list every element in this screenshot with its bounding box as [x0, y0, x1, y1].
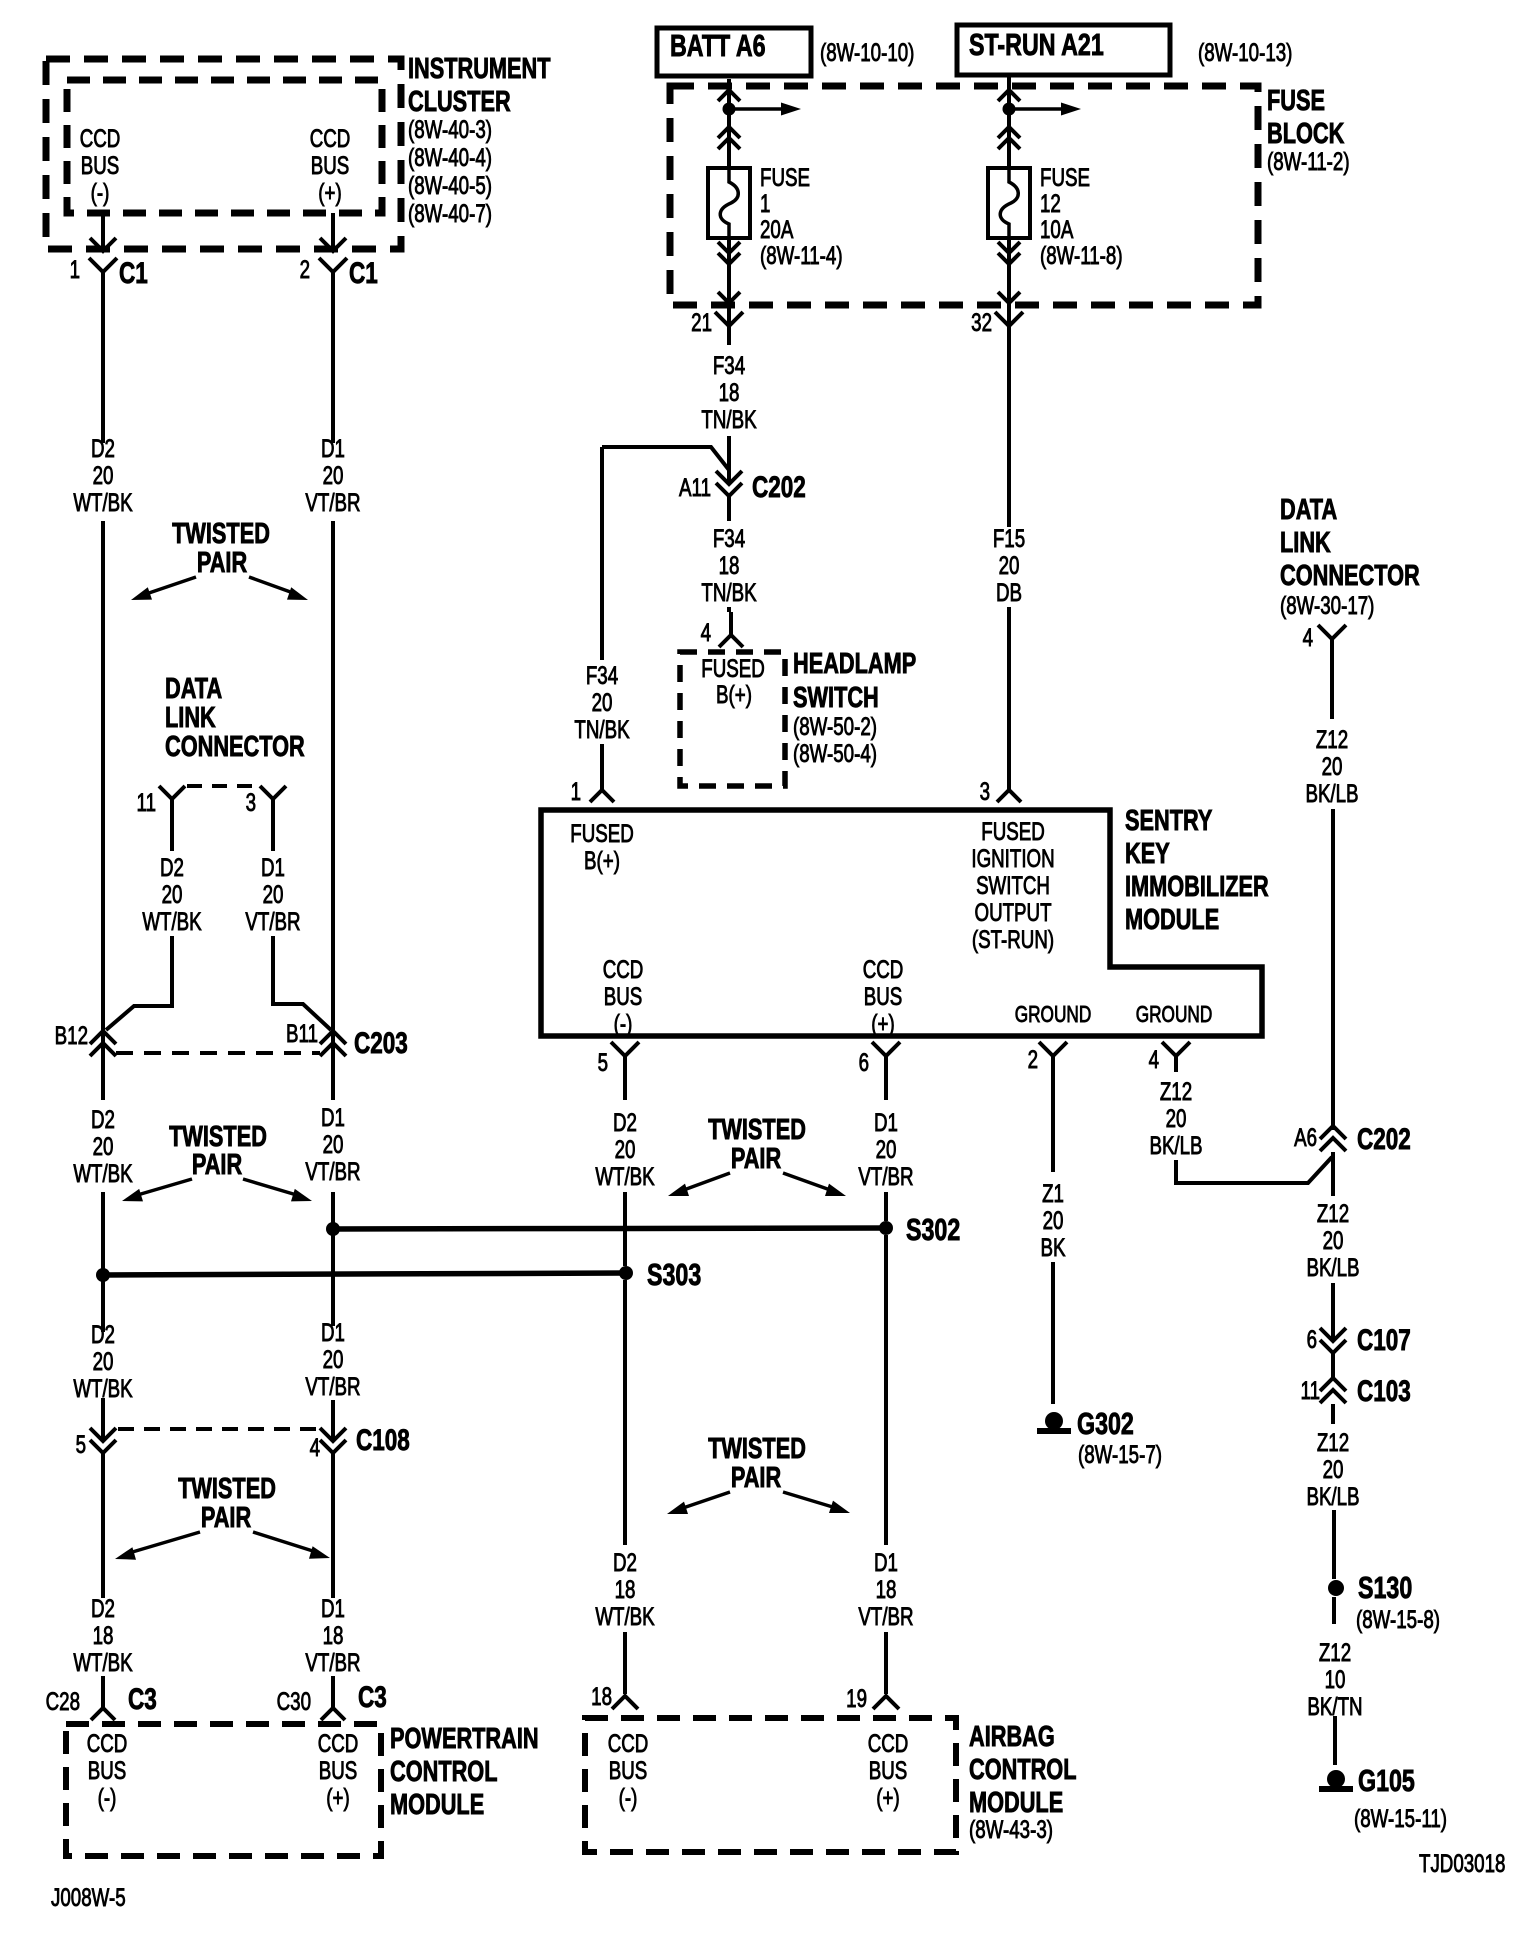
- dashed connector line between DLC pins: [187, 784, 259, 788]
- svg-text:S303: S303: [647, 1257, 701, 1292]
- wire BATT A6 into fuse block: [727, 79, 731, 168]
- wire D1 right column middle segment: [331, 521, 335, 1100]
- svg-text:(+): (+): [326, 1783, 349, 1811]
- connector C108 pin 4 chevrons: [320, 1428, 346, 1441]
- svg-text:TWISTED: TWISTED: [708, 1114, 806, 1146]
- svg-text:20: 20: [162, 880, 183, 908]
- svg-text:21: 21: [691, 308, 712, 336]
- svg-text:BUS: BUS: [609, 1756, 648, 1784]
- svg-text:CCD: CCD: [603, 955, 644, 983]
- svg-text:2: 2: [300, 255, 310, 283]
- SKIM pin 6 fork: [872, 1042, 900, 1056]
- sentry key immobilizer module box: [541, 810, 1262, 1036]
- connector fork pin 32: [995, 312, 1023, 326]
- svg-text:20: 20: [323, 1130, 344, 1158]
- svg-text:FUSED: FUSED: [981, 817, 1044, 845]
- svg-text:6: 6: [859, 1048, 869, 1076]
- arrow down at cluster box edge pin1: [90, 238, 116, 251]
- svg-text:3: 3: [246, 788, 256, 816]
- svg-text:CCD: CCD: [318, 1729, 359, 1757]
- svg-text:VT/BR: VT/BR: [858, 1602, 913, 1630]
- svg-text:B12: B12: [55, 1021, 88, 1049]
- svg-text:TWISTED: TWISTED: [169, 1121, 267, 1153]
- svg-text:PAIR: PAIR: [201, 1502, 251, 1534]
- svg-text:5: 5: [598, 1048, 608, 1076]
- svg-text:2: 2: [1028, 1045, 1038, 1073]
- svg-text:D1: D1: [874, 1108, 898, 1136]
- twisted pair arrow right (top left): [249, 577, 296, 594]
- svg-text:D1: D1: [321, 1318, 345, 1346]
- svg-text:G105: G105: [1358, 1763, 1415, 1798]
- svg-text:(+): (+): [318, 178, 341, 206]
- svg-text:BK/LB: BK/LB: [1306, 1482, 1359, 1510]
- svg-text:VT/BR: VT/BR: [305, 1372, 360, 1400]
- svg-text:D2: D2: [91, 1320, 115, 1348]
- wire fuse 1 to block edge: [727, 238, 731, 330]
- svg-text:TWISTED: TWISTED: [708, 1433, 806, 1465]
- svg-text:(+): (+): [871, 1009, 894, 1037]
- splice line to S303: [103, 1273, 626, 1275]
- svg-text:MODULE: MODULE: [390, 1789, 484, 1821]
- svg-text:C202: C202: [1357, 1122, 1411, 1156]
- double chevron down (below fuse 12): [998, 253, 1020, 264]
- svg-text:(8W-15-11): (8W-15-11): [1354, 1804, 1447, 1832]
- svg-text:BLOCK: BLOCK: [1267, 118, 1345, 150]
- svg-text:BUS: BUS: [311, 151, 350, 179]
- svg-text:SENTRY: SENTRY: [1125, 805, 1212, 837]
- svg-text:20: 20: [263, 880, 284, 908]
- svg-text:CONNECTOR: CONNECTOR: [1280, 560, 1420, 592]
- wire between C107 and C103: [1331, 1353, 1335, 1378]
- svg-text:20: 20: [323, 461, 344, 489]
- svg-text:18: 18: [93, 1621, 114, 1649]
- svg-text:BK/LB: BK/LB: [1305, 779, 1358, 807]
- svg-text:F15: F15: [993, 524, 1025, 552]
- svg-text:WT/BK: WT/BK: [595, 1162, 655, 1190]
- svg-text:WT/BK: WT/BK: [595, 1602, 655, 1630]
- junction dot below BATT A6: [723, 103, 736, 116]
- svg-text:D1: D1: [321, 1103, 345, 1131]
- connector C203 B11 chevrons: [320, 1031, 346, 1044]
- instrument cluster outer dashed box: [46, 59, 401, 249]
- arrow down at cluster box edge pin2: [320, 238, 346, 251]
- svg-text:(8W-10-10): (8W-10-10): [820, 38, 914, 66]
- svg-text:D1: D1: [321, 434, 345, 462]
- twisted pair arrow left (middle): [681, 1173, 730, 1191]
- headlamp switch dashed box: [680, 652, 785, 786]
- svg-text:C3: C3: [128, 1682, 157, 1716]
- svg-text:3: 3: [980, 777, 990, 805]
- svg-text:CONNECTOR: CONNECTOR: [165, 731, 305, 763]
- wire D2 left column middle segment: [101, 521, 105, 1100]
- svg-text:20: 20: [93, 1132, 114, 1160]
- svg-text:FUSE: FUSE: [760, 163, 810, 191]
- svg-text:CCD: CCD: [310, 124, 351, 152]
- svg-text:S302: S302: [906, 1212, 960, 1247]
- svg-text:(8W-40-7): (8W-40-7): [408, 199, 492, 227]
- svg-text:TWISTED: TWISTED: [178, 1473, 276, 1505]
- dashed connector line C203: [116, 1051, 320, 1055]
- svg-text:D2: D2: [91, 1105, 115, 1133]
- svg-text:C107: C107: [1357, 1323, 1411, 1357]
- svg-text:F34: F34: [586, 661, 618, 689]
- svg-text:A6: A6: [1294, 1123, 1317, 1151]
- fuse block dashed box: [670, 86, 1258, 305]
- svg-text:VT/BR: VT/BR: [305, 1157, 360, 1185]
- svg-text:BUS: BUS: [604, 982, 643, 1010]
- svg-text:GROUND: GROUND: [1136, 1003, 1213, 1028]
- twisted pair arrow right (left middle): [243, 1179, 300, 1196]
- ground G105 symbol: [1327, 1770, 1345, 1788]
- connector C1 pin 1 fork: [89, 258, 117, 272]
- junction dot on D1 wire: [326, 1222, 340, 1236]
- svg-text:CCD: CCD: [87, 1729, 128, 1757]
- splice line to S302: [333, 1228, 886, 1229]
- connector C202 A6 chevrons: [1320, 1126, 1346, 1139]
- double chevron up (right fuse feed): [998, 127, 1020, 138]
- svg-text:CCD: CCD: [863, 955, 904, 983]
- data link connector pin 11 fork: [159, 786, 185, 799]
- svg-text:(8W-11-4): (8W-11-4): [760, 241, 843, 269]
- svg-text:(8W-11-8): (8W-11-8): [1040, 241, 1123, 269]
- SKIM pin 3 fork: [997, 790, 1021, 802]
- svg-text:BUS: BUS: [864, 982, 903, 1010]
- svg-text:(8W-15-7): (8W-15-7): [1078, 1440, 1162, 1468]
- svg-text:D2: D2: [613, 1548, 637, 1576]
- svg-text:4: 4: [1149, 1045, 1159, 1073]
- chevron at fuse block top edge (left): [718, 90, 740, 101]
- svg-text:VT/BR: VT/BR: [858, 1162, 913, 1190]
- connector C203 B12 chevrons: [90, 1031, 116, 1044]
- double chevron down (below fuse 1): [718, 253, 740, 264]
- svg-text:MODULE: MODULE: [969, 1787, 1063, 1819]
- svg-text:J008W-5: J008W-5: [51, 1883, 126, 1911]
- wire to S130: [1332, 1510, 1336, 1579]
- svg-text:(8W-15-8): (8W-15-8): [1356, 1605, 1440, 1633]
- svg-text:CONTROL: CONTROL: [390, 1756, 497, 1788]
- ABM pin 19 fork: [873, 1696, 899, 1709]
- twisted pair arrow right (bottom left): [253, 1532, 316, 1552]
- svg-text:FUSE: FUSE: [1267, 85, 1325, 117]
- svg-text:11: 11: [137, 788, 156, 816]
- svg-text:(8W-40-5): (8W-40-5): [408, 171, 492, 199]
- double chevron up (left fuse feed): [718, 127, 740, 138]
- wire F34 to C202: [727, 436, 731, 483]
- svg-text:4: 4: [1303, 623, 1313, 651]
- svg-text:VT/BR: VT/BR: [245, 907, 300, 935]
- svg-text:PAIR: PAIR: [197, 547, 247, 579]
- branch wire to headlamp switch feed: [602, 447, 729, 470]
- wire fused B(+) branch down: [600, 447, 604, 660]
- svg-text:20: 20: [592, 688, 613, 716]
- svg-text:20: 20: [1323, 1226, 1344, 1254]
- svg-text:DATA: DATA: [165, 673, 222, 705]
- wire instrument cluster pin2 exit: [331, 213, 335, 249]
- svg-text:18: 18: [719, 378, 740, 406]
- connector C107 chevrons: [1320, 1328, 1346, 1341]
- svg-text:KEY: KEY: [1125, 838, 1170, 870]
- svg-text:F34: F34: [713, 351, 745, 379]
- svg-text:CCD: CCD: [80, 124, 121, 152]
- svg-text:(8W-50-2): (8W-50-2): [793, 712, 877, 740]
- svg-text:20: 20: [1043, 1206, 1064, 1234]
- power feed box ST-RUN A21: [957, 25, 1170, 75]
- svg-text:GROUND: GROUND: [1015, 1003, 1092, 1028]
- svg-text:FUSE: FUSE: [1040, 163, 1090, 191]
- wire D2 into splice junction: [101, 1192, 105, 1275]
- svg-text:C1: C1: [349, 256, 378, 290]
- svg-text:DATA: DATA: [1280, 494, 1337, 526]
- SKIM pin 1 fork: [590, 790, 614, 802]
- svg-text:FUSED: FUSED: [570, 819, 633, 847]
- svg-text:POWERTRAIN: POWERTRAIN: [390, 1723, 539, 1755]
- svg-text:A11: A11: [679, 473, 711, 501]
- svg-text:20: 20: [1166, 1104, 1187, 1132]
- instrument cluster inner dashed box: [67, 80, 382, 213]
- svg-text:C1: C1: [119, 256, 148, 290]
- wire SKIM pin6 to S302: [884, 1192, 888, 1221]
- chevron at fuse block bottom edge (right): [998, 292, 1020, 303]
- splice S302 dot: [879, 1221, 893, 1235]
- svg-text:BK/LB: BK/LB: [1149, 1131, 1202, 1159]
- svg-text:10A: 10A: [1040, 215, 1074, 243]
- wire D1 into C108: [331, 1400, 335, 1441]
- svg-text:11: 11: [1301, 1376, 1320, 1404]
- twisted pair arrow left (bottom middle): [680, 1492, 730, 1509]
- svg-text:Z1: Z1: [1042, 1179, 1064, 1207]
- connector C3 pin C30 fork: [321, 1708, 345, 1720]
- svg-text:BK/LB: BK/LB: [1306, 1253, 1359, 1281]
- airbag control module dashed box: [585, 1718, 956, 1852]
- svg-text:WT/BK: WT/BK: [73, 1159, 133, 1187]
- svg-text:C203: C203: [354, 1026, 408, 1060]
- svg-text:Z12: Z12: [1160, 1077, 1192, 1105]
- svg-text:TN/BK: TN/BK: [574, 715, 629, 743]
- junction dot below ST-RUN: [1003, 103, 1016, 116]
- wire ST-RUN into fuse block: [1007, 75, 1011, 168]
- data link connector pin 3 fork: [260, 786, 286, 799]
- svg-text:LINK: LINK: [165, 702, 216, 734]
- connector C1 pin 2 fork: [319, 258, 347, 272]
- arrow to other circuits (right): [1015, 107, 1064, 111]
- connector C103 chevrons: [1320, 1378, 1346, 1391]
- svg-text:20: 20: [999, 551, 1020, 579]
- svg-text:INSTRUMENT: INSTRUMENT: [408, 53, 551, 85]
- svg-text:4: 4: [701, 618, 711, 646]
- svg-text:1: 1: [571, 777, 581, 805]
- dashed connector line C108: [118, 1427, 318, 1431]
- svg-text:MODULE: MODULE: [1125, 904, 1219, 936]
- svg-text:(8W-30-17): (8W-30-17): [1280, 591, 1374, 619]
- svg-text:ST-RUN A21: ST-RUN A21: [969, 27, 1104, 62]
- svg-text:WT/BK: WT/BK: [73, 1648, 133, 1676]
- wire below C202 A6: [1331, 1152, 1335, 1196]
- svg-text:TWISTED: TWISTED: [172, 518, 270, 550]
- wire D1 into splice junction: [331, 1192, 335, 1229]
- svg-text:VT/BR: VT/BR: [305, 1648, 360, 1676]
- svg-text:20: 20: [876, 1135, 897, 1163]
- svg-text:20: 20: [323, 1345, 344, 1373]
- svg-text:20: 20: [615, 1135, 636, 1163]
- wire fuse 12 to block edge: [1007, 238, 1011, 330]
- junction dot on D2 wire: [96, 1268, 110, 1282]
- svg-text:CCD: CCD: [868, 1729, 909, 1757]
- wire below S303: [623, 1280, 627, 1545]
- svg-text:IGNITION: IGNITION: [971, 844, 1054, 872]
- svg-text:BATT A6: BATT A6: [670, 28, 766, 63]
- svg-text:PAIR: PAIR: [731, 1462, 781, 1494]
- svg-text:(+): (+): [876, 1783, 899, 1811]
- svg-text:20A: 20A: [760, 215, 794, 243]
- svg-text:Z12: Z12: [1317, 1199, 1349, 1227]
- svg-text:(-): (-): [619, 1783, 638, 1811]
- svg-text:IMMOBILIZER: IMMOBILIZER: [1125, 871, 1269, 903]
- svg-text:D1: D1: [321, 1594, 345, 1622]
- wire SKIM pin2 ground wire lower: [1051, 1262, 1055, 1404]
- twisted pair arrow right (middle): [783, 1173, 833, 1191]
- wire D1 below junction: [331, 1229, 335, 1326]
- svg-text:WT/BK: WT/BK: [73, 488, 133, 516]
- svg-text:C103: C103: [1357, 1374, 1411, 1408]
- twisted pair arrow left (top left): [143, 577, 196, 595]
- svg-text:BUS: BUS: [319, 1756, 358, 1784]
- wire F34 into headlamp switch: [727, 607, 731, 612]
- svg-text:18: 18: [323, 1621, 344, 1649]
- svg-text:D2: D2: [160, 853, 184, 881]
- wire DLC pin 3 to C203 B11: [273, 936, 331, 1030]
- power feed box BATT A6: [657, 28, 811, 76]
- svg-text:SWITCH: SWITCH: [976, 871, 1050, 899]
- splice S130 dot: [1328, 1580, 1344, 1596]
- svg-text:20: 20: [1323, 1455, 1344, 1483]
- wire into ABM pin 18: [623, 1632, 627, 1694]
- svg-text:B(+): B(+): [584, 846, 620, 874]
- svg-text:(-): (-): [98, 1783, 117, 1811]
- wire DLC to C202 A6: [1331, 809, 1335, 1130]
- svg-text:F34: F34: [713, 524, 745, 552]
- headlamp switch pin 4 fork: [719, 635, 743, 647]
- chevron at fuse block top edge (right): [998, 90, 1020, 101]
- svg-text:TJD03018: TJD03018: [1419, 1849, 1505, 1877]
- svg-text:BK: BK: [1041, 1233, 1066, 1261]
- svg-text:SWITCH: SWITCH: [793, 682, 879, 714]
- SKIM pin 4 fork: [1162, 1042, 1190, 1056]
- SKIM pin 5 fork: [611, 1042, 639, 1056]
- svg-text:B(+): B(+): [716, 680, 752, 708]
- svg-text:5: 5: [76, 1430, 86, 1458]
- svg-text:12: 12: [1040, 189, 1061, 217]
- svg-text:D2: D2: [613, 1108, 637, 1136]
- svg-text:6: 6: [1307, 1325, 1317, 1353]
- svg-text:20: 20: [93, 1347, 114, 1375]
- fuse 12 symbol: [988, 168, 1030, 238]
- svg-text:VT/BR: VT/BR: [305, 488, 360, 516]
- svg-text:TN/BK: TN/BK: [701, 405, 756, 433]
- svg-text:HEADLAMP: HEADLAMP: [793, 648, 916, 680]
- svg-text:20: 20: [1322, 752, 1343, 780]
- DLC pin 4 fork (right): [1318, 625, 1346, 639]
- powertrain control module dashed box: [66, 1724, 381, 1856]
- wire to C107: [1331, 1283, 1335, 1340]
- svg-text:D1: D1: [261, 853, 285, 881]
- svg-text:AIRBAG: AIRBAG: [969, 1721, 1055, 1753]
- svg-text:(ST-RUN): (ST-RUN): [972, 925, 1054, 953]
- wire F15 from fuse block to SKIM: [1007, 345, 1011, 527]
- svg-text:PAIR: PAIR: [192, 1149, 242, 1181]
- svg-text:Z12: Z12: [1319, 1638, 1351, 1666]
- wire D2 below junction: [101, 1275, 105, 1332]
- svg-text:1: 1: [70, 255, 80, 283]
- svg-text:(8W-10-13): (8W-10-13): [1198, 38, 1292, 66]
- svg-text:(8W-40-4): (8W-40-4): [408, 143, 492, 171]
- svg-text:FUSED: FUSED: [701, 654, 764, 682]
- svg-text:D2: D2: [91, 434, 115, 462]
- svg-text:DB: DB: [996, 578, 1022, 606]
- svg-text:(8W-50-4): (8W-50-4): [793, 739, 877, 767]
- svg-text:BUS: BUS: [869, 1756, 908, 1784]
- arrow to other circuits (left): [735, 107, 784, 111]
- connector C3 pin C28 fork: [91, 1708, 115, 1720]
- svg-text:Z12: Z12: [1317, 1428, 1349, 1456]
- svg-text:D2: D2: [91, 1594, 115, 1622]
- svg-text:(8W-43-3): (8W-43-3): [969, 1815, 1053, 1843]
- svg-text:D1: D1: [874, 1548, 898, 1576]
- wire below C103: [1331, 1404, 1335, 1424]
- svg-text:C202: C202: [752, 470, 806, 504]
- svg-text:S130: S130: [1358, 1570, 1412, 1605]
- svg-text:PAIR: PAIR: [731, 1143, 781, 1175]
- svg-text:C28: C28: [46, 1687, 80, 1715]
- svg-text:19: 19: [846, 1684, 867, 1712]
- svg-text:CLUSTER: CLUSTER: [408, 86, 511, 118]
- ABM pin 18 fork: [612, 1696, 638, 1709]
- svg-text:LINK: LINK: [1280, 527, 1331, 559]
- connector C202 A11 chevrons: [716, 471, 742, 484]
- SKIM pin 2 fork: [1039, 1042, 1067, 1056]
- wire to G105: [1333, 1716, 1337, 1765]
- svg-text:WT/BK: WT/BK: [142, 907, 202, 935]
- wire SKIM pin5 to S303: [623, 1192, 627, 1266]
- svg-text:(-): (-): [614, 1009, 633, 1037]
- twisted pair arrow left (bottom left): [129, 1532, 200, 1553]
- wire DLC pin 11 to C203 B12: [106, 936, 172, 1030]
- svg-text:(8W-40-3): (8W-40-3): [408, 115, 492, 143]
- wire D2 into C108: [101, 1398, 105, 1441]
- svg-text:20: 20: [93, 461, 114, 489]
- wire below S130: [1332, 1597, 1336, 1624]
- svg-text:CCD: CCD: [608, 1729, 649, 1757]
- wire SKIM pin4 to C202 A6: [1176, 1157, 1332, 1183]
- svg-text:BUS: BUS: [88, 1756, 127, 1784]
- connector C108 pin 5 chevrons: [90, 1428, 116, 1441]
- svg-text:Z12: Z12: [1316, 725, 1348, 753]
- svg-text:10: 10: [1325, 1665, 1346, 1693]
- svg-text:32: 32: [971, 308, 992, 336]
- svg-text:(8W-11-2): (8W-11-2): [1267, 147, 1350, 175]
- wire into ABM pin 19: [884, 1632, 888, 1694]
- fuse 1 symbol: [708, 168, 750, 238]
- twisted pair arrow left (left middle): [134, 1179, 192, 1196]
- svg-text:CONTROL: CONTROL: [969, 1754, 1076, 1786]
- svg-text:OUTPUT: OUTPUT: [974, 898, 1051, 926]
- ground G302 symbol: [1045, 1412, 1063, 1430]
- svg-text:G302: G302: [1077, 1406, 1134, 1441]
- svg-text:B11: B11: [286, 1019, 318, 1047]
- chevron at fuse block bottom edge (left): [718, 292, 740, 303]
- svg-text:TN/BK: TN/BK: [701, 578, 756, 606]
- svg-text:18: 18: [615, 1575, 636, 1603]
- svg-text:18: 18: [876, 1575, 897, 1603]
